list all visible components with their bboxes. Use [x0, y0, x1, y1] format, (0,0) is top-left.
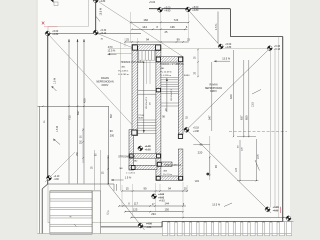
stair risers top-left room: [138, 51, 140, 60]
svg-text:637: 637: [76, 110, 80, 115]
svg-text:KROV: KROV: [102, 84, 109, 87]
elevation marker top-right 1: [218, 44, 224, 50]
small dims cluster left of building: [107, 155, 109, 184]
svg-text:1.5 %: 1.5 %: [125, 176, 132, 179]
svg-text:L: 1.26 m: L: 1.26 m: [126, 172, 135, 174]
svg-text:420: 420: [229, 94, 233, 99]
svg-text:+4.98: +4.98: [193, 131, 200, 133]
main 45deg diagonal left: [48, 34, 132, 124]
wall bottom lower-left room: [129, 165, 157, 169]
svg-text:136: 136: [170, 25, 175, 29]
svg-text:125: 125: [133, 207, 138, 211]
svg-text:724: 724: [174, 18, 179, 22]
svg-text:94: 94: [168, 186, 171, 190]
roof slope diagonal top-left: [99, 2, 183, 57]
elevation marker M3: [93, 30, 99, 36]
landing line left room: [138, 90, 156, 92]
wall top-left room: [132, 45, 161, 51]
svg-text:637: 637: [240, 115, 244, 120]
extension vertical near building left: [119, 42, 121, 191]
wall left: [132, 45, 138, 136]
bottom dim row 1: [122, 190, 188, 192]
svg-text:117: 117: [134, 201, 139, 205]
svg-text:-4.86: -4.86: [273, 210, 279, 212]
svg-text:99: 99: [177, 38, 181, 42]
svg-text:+4.80: +4.80: [164, 10, 171, 13]
terrace outline: [37, 105, 108, 107]
svg-text:650: 650: [245, 115, 249, 120]
svg-text:HODNIK i STUBIŠTE: HODNIK i STUBIŠTE: [160, 63, 184, 66]
columns: [132, 45, 137, 50]
lower right rotated dims: [239, 140, 241, 181]
elevation marker left bottom: [46, 175, 52, 181]
diagonal slash right (top-right marker to EM3): [187, 48, 270, 129]
red tick at bottom-right marker: [280, 207, 282, 213]
svg-text:15.5 %: 15.5 %: [100, 7, 103, 15]
bottom pergola slats: [162, 221, 283, 223]
stair treads right room: [161, 77, 178, 79]
roof edge to left marker: [48, 33, 141, 35]
wall bottom lower-right room: [156, 176, 183, 180]
svg-text:+4.80: +4.80: [52, 33, 59, 36]
svg-text:MUB: MUB: [139, 118, 144, 120]
bottom dim row 2: [119, 205, 186, 207]
svg-text:PTOB: PTOB: [139, 115, 145, 117]
wall band below strojarnica: [157, 162, 172, 167]
wall middle vertical: [156, 51, 161, 181]
wall top right room: [156, 57, 183, 62]
elevation marker EM3: [184, 127, 190, 133]
svg-text:294: 294: [151, 212, 156, 216]
svg-text:713: 713: [68, 115, 72, 120]
diagonal through left bottom marker: [45, 152, 75, 182]
svg-text:K: 4.265 m: K: 4.265 m: [118, 74, 129, 76]
svg-text:STROJARNICA: STROJARNICA: [118, 155, 135, 158]
red guide line: [44, 26, 58, 28]
svg-text:144: 144: [142, 25, 147, 29]
svg-text:+4.80: +4.80: [99, 0, 106, 3]
red cross mark: [42, 22, 45, 25]
svg-text:HODNIK i STUBIŠTE: HODNIK i STUBIŠTE: [121, 61, 145, 64]
svg-text:12.5 %: 12.5 %: [108, 49, 117, 52]
top dim row 2 line: [132, 28, 188, 30]
svg-text:150: 150: [164, 207, 169, 211]
svg-text:80/80: 80/80: [184, 75, 190, 77]
svg-text:+5.12: +5.12: [100, 32, 107, 35]
svg-text:1.5 %: 1.5 %: [56, 125, 59, 132]
svg-text:94: 94: [146, 38, 150, 42]
svg-text:+4.10: +4.10: [54, 176, 61, 178]
small marker lower right: [206, 173, 209, 176]
wall right lower room: [178, 149, 183, 180]
svg-text:127: 127: [235, 167, 238, 172]
svg-text:KROV: KROV: [210, 90, 217, 93]
wall step left lower: [129, 130, 134, 170]
extension verticals bottom dims: [121, 185, 123, 206]
elevation marker M2: [185, 7, 191, 13]
elevation marker M0: [45, 31, 51, 37]
pergola right strip: [91, 191, 93, 234]
bottom dim row 3: [125, 211, 183, 213]
svg-text:420: 420: [82, 98, 86, 103]
lower floor outline (gray): [48, 0, 283, 223]
svg-text:STROJARNICA: STROJARNICA: [164, 164, 181, 167]
long dim line across roof: [109, 47, 271, 49]
svg-text:13.5 %: 13.5 %: [212, 204, 221, 207]
svg-text:144: 144: [164, 201, 169, 205]
elevation marker EM6: [138, 223, 144, 229]
section symbol top-left: [51, 0, 54, 3]
roof outline bottom edge: [162, 221, 283, 223]
svg-text:160: 160: [143, 18, 148, 22]
svg-text:VIS 15x17,5: VIS 15x17,5: [146, 96, 148, 109]
roof outline right edge: [282, 37, 284, 222]
left pergola frame: [50, 191, 92, 234]
marker at top edge: [93, 0, 99, 3]
svg-text:+5.18: +5.18: [193, 128, 200, 130]
diagonal backslash right (EM3 to bottom marker): [187, 130, 272, 213]
svg-text:220: 220: [198, 150, 203, 154]
stair rails left room: [146, 60, 148, 84]
sheet bottom edge: [37, 233, 291, 235]
svg-text:+4.80: +4.80: [192, 9, 199, 12]
wall top lower-left room: [129, 154, 161, 159]
elevation marker bottom right: [265, 206, 271, 212]
svg-text:697: 697: [109, 113, 113, 118]
small marker far bottom right: [286, 215, 292, 221]
stair treads left room lower flight: [138, 119, 156, 121]
left dim arrows: [68, 39, 70, 42]
slope 1.5% rotated top-right: [217, 12, 219, 44]
svg-text:+5.00: +5.00: [149, 1, 156, 4]
stair arrow left room: [143, 62, 145, 133]
svg-text:4/70: 4/70: [108, 46, 113, 49]
svg-text:K: 4.265 m: K: 4.265 m: [161, 75, 172, 77]
right extension verticals long: [269, 50, 271, 208]
svg-text:13.5: 13.5: [252, 102, 255, 107]
svg-text:13.5: 13.5: [258, 154, 260, 159]
svg-text:13.5 %: 13.5 %: [222, 58, 231, 61]
bottom dim row 4: [131, 217, 286, 219]
svg-text:VIS 15x17,5: VIS 15x17,5: [171, 88, 173, 101]
left lower outline: [41, 189, 43, 234]
svg-text:-4.90: -4.90: [54, 179, 60, 181]
diagonal bottom-left to marker: [108, 184, 145, 230]
extension verticals top dims: [130, 12, 132, 42]
left pergola slats: [50, 193, 92, 199]
dashed line right: [229, 130, 287, 132]
roof outline top-right step: [229, 9, 231, 37]
stair arrow right room: [166, 78, 168, 112]
roof outline left vertical upper: [95, 0, 97, 33]
svg-text:+4.80: +4.80: [225, 46, 232, 49]
top dim row 3 line: [125, 41, 189, 43]
roof outline left edge: [47, 34, 49, 185]
svg-text:V22: V22: [195, 180, 200, 183]
elevation marker top-right 2: [267, 45, 273, 51]
top dim row 1 line: [131, 21, 189, 23]
svg-text:1.5 %: 1.5 %: [215, 23, 218, 30]
extension lines right column: [211, 62, 213, 131]
elevation marker M1: [157, 7, 163, 13]
svg-text:+4.83: +4.83: [159, 200, 166, 202]
svg-text:P= 12.49 m: P= 12.49 m: [161, 72, 172, 74]
elevation marker EM4: [137, 146, 143, 152]
elevation marker EM5: [151, 193, 157, 199]
extension lines left column: [68, 39, 70, 184]
short diagonal at top-right markers: [188, 10, 221, 47]
svg-text:99: 99: [144, 186, 147, 190]
diagonal from M3 to building corner: [96, 33, 132, 48]
svg-text:P= 2.5 m: P= 2.5 m: [163, 174, 172, 176]
line left of building: [109, 52, 132, 54]
svg-text:P= 4.49 m: P= 4.49 m: [118, 70, 128, 72]
svg-text:547: 547: [208, 115, 212, 120]
svg-text:1.5 %: 1.5 %: [54, 77, 57, 84]
svg-text:200: 200: [110, 134, 115, 138]
svg-text:-4.86: -4.86: [146, 227, 152, 229]
roof outline top edge: [149, 8, 230, 10]
wall right: [178, 57, 183, 134]
extension vertical lower right: [209, 136, 211, 180]
